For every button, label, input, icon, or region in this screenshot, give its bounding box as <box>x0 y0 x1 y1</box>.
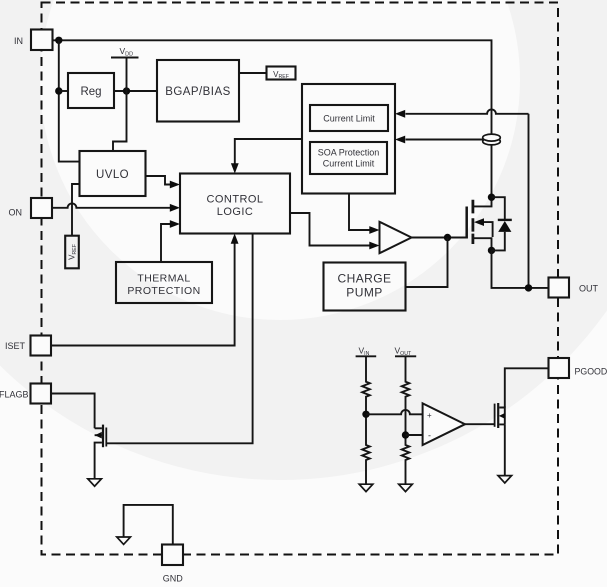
ground under Q3 <box>498 476 512 483</box>
svg-text:-: - <box>428 431 431 441</box>
svg-text:Reg: Reg <box>80 86 101 98</box>
resistor R3 <box>402 356 410 435</box>
svg-text:+: + <box>427 411 432 420</box>
pin OUT <box>549 278 599 298</box>
pin ON <box>9 198 53 218</box>
block CONTROL LOGIC <box>180 174 290 234</box>
svg-text:OUT: OUT <box>579 283 599 293</box>
power VOUT symbol <box>395 346 417 357</box>
svg-text:CONTROL: CONTROL <box>207 194 264 206</box>
wire FLAGB to Q2 drain <box>51 394 95 429</box>
wire charge pump link <box>406 238 448 288</box>
node Reg input junction <box>55 87 62 94</box>
diode body diode <box>492 197 512 250</box>
svg-text:FLAGB: FLAGB <box>0 389 29 399</box>
svg-text:ISET: ISET <box>5 341 26 351</box>
wire GND bracket <box>124 505 173 545</box>
wire ON to CONTROL LOGIC with hop <box>53 203 181 211</box>
transistor Q2 flag FET <box>95 425 107 479</box>
ground under Q2 <box>88 479 102 486</box>
node VDD junction <box>123 87 130 94</box>
wire comparator output to Q3 gate <box>465 423 494 425</box>
block VREF <box>267 67 296 81</box>
block BGAP/BIAS <box>157 60 239 122</box>
pin FLAGB <box>0 384 51 404</box>
current sensor on sense line <box>483 134 501 145</box>
svg-text:LOGIC: LOGIC <box>217 206 253 218</box>
transistor Q1 pass FET <box>467 197 493 250</box>
pin PGOOD <box>549 358 607 378</box>
block CHARGE PUMP <box>324 263 406 311</box>
wire VREF2 riser to UVLO <box>72 184 80 236</box>
wire BGAP to VREF <box>239 72 267 74</box>
ground under R4 <box>399 484 413 491</box>
wire IN branch down to UVLO <box>59 40 80 161</box>
pin GND <box>162 545 183 584</box>
node driver output junction <box>444 234 451 241</box>
block Reg <box>68 73 114 108</box>
svg-text:PUMP: PUMP <box>346 286 382 300</box>
block current limit outer <box>302 84 395 194</box>
block Current Limit <box>310 105 388 131</box>
svg-text:THERMAL: THERMAL <box>137 272 190 284</box>
power VDD symbol <box>111 46 139 58</box>
wire Q3 source to ground <box>504 424 506 475</box>
svg-text:CHARGE: CHARGE <box>337 272 391 286</box>
resistor R4 <box>402 435 410 484</box>
wire CONTROL LOGIC to driver lower input <box>290 213 380 249</box>
pin IN <box>14 30 53 51</box>
wire VDD stem to UVLO top <box>113 58 127 152</box>
block THERMAL PROTECTION <box>116 262 212 303</box>
block VREF2 vertical <box>65 236 79 269</box>
pin ISET <box>5 336 51 356</box>
svg-text:PROTECTION: PROTECTION <box>127 285 200 297</box>
wire divider tap to comparator plus with hop <box>366 410 423 414</box>
node IN junction <box>55 37 62 44</box>
node Q1 drain <box>488 194 495 201</box>
wire Reg input <box>59 90 68 92</box>
ground under bracket <box>117 537 131 544</box>
wire current limit to driver upper input <box>349 194 380 234</box>
wire THERMAL to CONTROL LOGIC <box>161 220 180 262</box>
wire sense A to current limit with hop <box>395 109 529 287</box>
svg-text:GND: GND <box>163 574 184 584</box>
wire CONTROL LOGIC to Q2 gate <box>106 234 253 444</box>
svg-text:ON: ON <box>9 208 23 218</box>
op-amp comparator <box>423 403 465 445</box>
node Q1 source <box>488 247 495 254</box>
wire OUT rail <box>492 250 549 288</box>
power VIN symbol <box>356 346 377 357</box>
wire Reg to BGAP/BIAS <box>114 90 157 92</box>
svg-text:Current Limit: Current Limit <box>323 113 375 123</box>
wire UVLO to CONTROL LOGIC <box>146 176 181 188</box>
node OUT junction <box>525 284 532 291</box>
op-amp driver <box>380 222 412 253</box>
resistor R1 <box>362 356 370 414</box>
wire ISET to CONTROL LOGIC bottom <box>51 234 239 346</box>
node VOUT divider tap <box>402 431 409 438</box>
node VIN divider tap <box>362 411 369 418</box>
svg-text:SOA Protection: SOA Protection <box>318 147 380 157</box>
svg-text:BGAP/BIAS: BGAP/BIAS <box>165 86 230 98</box>
svg-text:Current Limit: Current Limit <box>323 159 375 169</box>
wire Q3 drain to PGOOD <box>505 368 549 407</box>
ground under R2 <box>359 484 373 491</box>
svg-text:PGOOD: PGOOD <box>575 366 607 376</box>
resistor R2 <box>362 414 370 484</box>
block UVLO <box>80 151 146 196</box>
wire divider tap to comparator minus <box>406 434 423 436</box>
wire sense B from sensor to SOA limit <box>395 136 483 144</box>
svg-text:UVLO: UVLO <box>96 169 129 181</box>
wire IN top rail to sense line <box>53 40 492 197</box>
transistor Q3 pgood FET <box>495 403 506 428</box>
svg-text:IN: IN <box>14 36 23 46</box>
wire driver output to gate <box>412 237 467 239</box>
block SOA Protection Current Limit <box>310 142 387 174</box>
wire current limit block to CONTROL LOGIC top <box>231 139 302 174</box>
